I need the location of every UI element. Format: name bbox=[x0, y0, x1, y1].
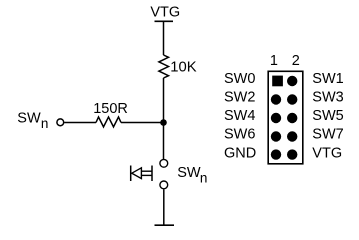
pin 9 bbox=[271, 149, 281, 159]
svg-text:VTG: VTG bbox=[312, 146, 342, 162]
resistor R1 10K bbox=[159, 55, 169, 78]
pin 10 bbox=[287, 149, 297, 159]
pushbutton actuator bbox=[131, 166, 152, 182]
power rail bar VTG bbox=[155, 20, 174, 22]
svg-text:SW7: SW7 bbox=[312, 127, 343, 143]
svg-text:SW5: SW5 bbox=[312, 108, 343, 124]
svg-text:SW2: SW2 bbox=[224, 90, 255, 106]
svg-text:2: 2 bbox=[292, 53, 300, 69]
resistor R2 150R bbox=[96, 117, 121, 127]
svg-text:SW: SW bbox=[17, 111, 41, 127]
pin 1 square pad bbox=[272, 76, 283, 87]
pushbutton SWn bottom contact bbox=[160, 181, 168, 189]
svg-text:SW3: SW3 bbox=[312, 90, 343, 106]
svg-text:n: n bbox=[200, 171, 208, 186]
svg-text:n: n bbox=[41, 116, 49, 131]
pin 7 bbox=[271, 131, 281, 141]
svg-text:10K: 10K bbox=[170, 60, 196, 76]
svg-text:GND: GND bbox=[224, 146, 256, 162]
wire R2 to node A bbox=[121, 122, 164, 124]
pin 8 bbox=[287, 131, 297, 141]
wire node A to pushbutton bbox=[163, 123, 165, 160]
node A junction dot bbox=[160, 119, 167, 126]
svg-text:150R: 150R bbox=[93, 101, 128, 117]
terminal SWn open circle bbox=[57, 119, 64, 126]
svg-text:SW4: SW4 bbox=[224, 108, 255, 124]
svg-text:SW6: SW6 bbox=[224, 127, 255, 143]
pin 4 bbox=[287, 94, 297, 104]
svg-text:1: 1 bbox=[270, 53, 278, 69]
label SWn at terminal bbox=[17, 111, 48, 132]
svg-text:VTG: VTG bbox=[150, 5, 180, 21]
pin 2 bbox=[287, 76, 297, 86]
wire R1 to node A bbox=[163, 78, 165, 123]
svg-text:SW: SW bbox=[177, 165, 201, 181]
pushbutton SWn top contact bbox=[160, 159, 168, 167]
pin 3 bbox=[271, 94, 281, 104]
svg-text:SW0: SW0 bbox=[224, 71, 255, 87]
svg-text:SW1: SW1 bbox=[312, 71, 343, 87]
wire pushbutton to ground bbox=[163, 189, 165, 225]
wire terminal to resistor R2 bbox=[64, 122, 96, 124]
label SWn at pushbutton bbox=[177, 165, 207, 186]
pin 5 bbox=[271, 113, 281, 123]
ground bbox=[155, 224, 175, 226]
connector header outline bbox=[268, 71, 303, 164]
wire VTG bar to resistor R1 bbox=[163, 21, 165, 55]
pin 6 bbox=[287, 113, 297, 123]
